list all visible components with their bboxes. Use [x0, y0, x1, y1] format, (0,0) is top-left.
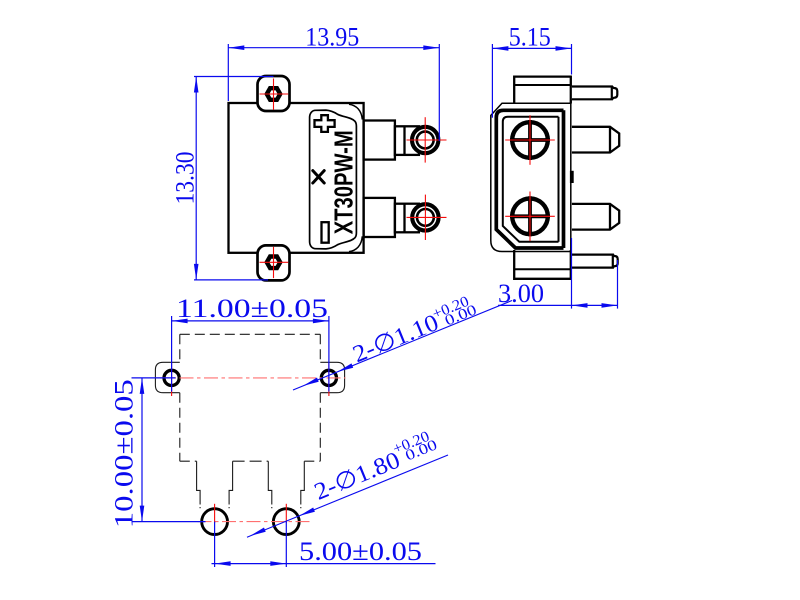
leader 1.80 hole arrow: [299, 508, 315, 516]
moulding mark x: [313, 171, 324, 183]
dimension 5.00 left arrow: [215, 561, 231, 566]
top block divider: [514, 84, 571, 86]
dimension 10.00±0.05: [132, 378, 206, 522]
dimension 5.00±0.05: [212, 522, 436, 567]
left mounting ear: [155, 362, 179, 392]
svg-text:11.00±0.05: 11.00±0.05: [176, 294, 328, 323]
hole 1.80 left: [202, 509, 228, 535]
dimension 13.95: [228, 44, 439, 141]
right mounting ear: [320, 362, 344, 392]
dimension 3.00 right arrow: [602, 303, 618, 308]
dashed bottom shelf middle: [233, 460, 269, 462]
dashed right edge lower: [319, 393, 321, 462]
red centerline bottom holes: [198, 521, 311, 523]
hex hole bottom tab: [267, 257, 280, 269]
pin 2 crimp section: [395, 204, 419, 233]
top block: [514, 77, 571, 104]
svg-text:5.00±0.05: 5.00±0.05: [299, 537, 422, 566]
inner housing outline: [503, 117, 559, 242]
pin C (lower thick): [572, 204, 619, 230]
dimension 10.00 top arrow: [140, 378, 145, 394]
hole 1.10 right: [321, 370, 336, 385]
tolerance 1.80: [391, 427, 440, 468]
outer thin body outline: [491, 103, 571, 251]
dimension 11.00 left arrow: [172, 319, 188, 324]
thick housing right edge: [562, 110, 566, 248]
red vertical marks: [172, 363, 329, 523]
red crosshairs side view: [505, 115, 555, 241]
pin 1 crimp divider: [403, 126, 405, 155]
dimension 11.00 right arrow: [313, 319, 329, 324]
body inner corner arc bottom-right: [349, 236, 362, 251]
inner housing right edge: [558, 117, 560, 242]
dimension 5.15 left arrow: [492, 46, 508, 51]
pin 2 ring terminal inner: [417, 209, 434, 226]
pin B (upper thick): [572, 127, 619, 153]
crosshair bottom tab hole: [273, 247, 275, 278]
svg-text:XT30PW-M: XT30PW-M: [329, 130, 359, 234]
dashed left edge upper: [179, 334, 181, 362]
thick housing outline: [496, 110, 563, 248]
svg-text:13.95: 13.95: [305, 22, 359, 51]
dashed body outline top: [180, 333, 320, 335]
dashed right edge upper: [319, 334, 321, 362]
leader 2-d1.80: [247, 455, 448, 537]
pin 2 base rect: [364, 198, 395, 237]
dimension 5.15 right arrow: [556, 46, 572, 51]
hole 1.10 left: [164, 370, 179, 385]
tolerance 1.10: [430, 292, 479, 333]
dimension 3.00: [498, 238, 618, 309]
pin 1 ring terminal outer: [412, 127, 438, 153]
contact barrel bottom: cross circle: [510, 196, 550, 236]
dimension 13.30 bottom arrow: [194, 264, 199, 280]
dimension 5.00 right arrow: [270, 561, 286, 566]
red centerline top holes: [155, 377, 346, 379]
pin 2 crimp divider: [403, 204, 405, 233]
hole 1.80 right: [273, 509, 299, 535]
pin slot 1 right wall: [229, 461, 233, 508]
bottom block: [514, 250, 571, 279]
dashed left edge lower: [179, 393, 181, 462]
contact barrel top: cross circle: [510, 120, 550, 160]
pin slot 1 left wall: [197, 461, 201, 508]
pin 1 base rect: [364, 121, 395, 160]
hex hole top tab: [267, 88, 280, 100]
connector body outline: [229, 103, 364, 253]
pin A (top thin): [572, 87, 612, 100]
outer outline right edge: [570, 103, 572, 251]
bottom block divider: [514, 268, 571, 270]
leader 1.80 end arrow: [250, 528, 266, 536]
crosshair barrel top: [529, 115, 531, 165]
pin 1 ring terminal inner: [417, 132, 434, 149]
pin slot 2 right wall: [301, 461, 305, 508]
pin 1 crimp section: [395, 126, 419, 155]
mounting tab bottom: [258, 245, 290, 280]
svg-text:10.00±0.05: 10.00±0.05: [110, 379, 139, 528]
crosshair pin 2 terminal: [424, 195, 426, 240]
crosshair top tab hole: [273, 79, 275, 110]
pin D (bottom thin): [572, 255, 613, 268]
dimension 13.30: [194, 77, 274, 280]
label plate outline: [310, 110, 357, 249]
dimension 5.15: [492, 44, 571, 118]
svg-text:5.15: 5.15: [509, 22, 551, 51]
crosshair barrel bottom: [529, 192, 531, 242]
pin 2 ring terminal outer: [412, 204, 438, 230]
crosshair pin 1 terminal: [424, 117, 426, 162]
dashed bottom shelf left: [180, 460, 197, 462]
dashed bottom shelf right: [304, 460, 320, 462]
dimension 11.00±0.05: [172, 316, 329, 392]
dimension 13.95 left arrow: [228, 45, 244, 50]
red crosshairs front view: [260, 79, 447, 279]
dimension 3.00 left arrow: [572, 303, 588, 308]
leader 1.10 end arrow: [303, 378, 319, 386]
dimension 13.30 top arrow: [194, 77, 199, 93]
leader 1.10 hole arrow: [338, 363, 354, 371]
body inner corner arc top-right: [349, 104, 362, 119]
dimension 10.00 bottom arrow: [140, 506, 145, 522]
right edge bump: [570, 171, 574, 183]
dimension 13.95 right arrow: [423, 45, 439, 50]
svg-text:13.30: 13.30: [171, 152, 200, 205]
plus symbol: [315, 115, 335, 132]
pin slot 2 left wall: [268, 461, 272, 508]
leader 2-d1.10: [293, 301, 512, 391]
mounting tab top: [258, 76, 290, 111]
minus symbol: [322, 222, 329, 243]
